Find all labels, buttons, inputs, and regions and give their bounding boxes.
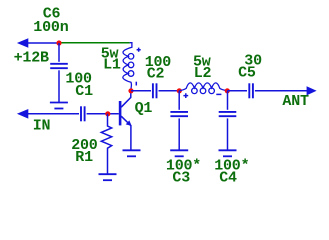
capacitor C1: [80, 106, 82, 121]
polarity - (L2): [216, 93, 221, 95]
svg-text:L1: L1: [103, 57, 121, 74]
inductor L2: [179, 83, 227, 91]
wire collector to C2: [131, 90, 151, 92]
port arrow +12B: [17, 38, 28, 48]
ground Q1: [123, 149, 141, 151]
wire +12B port to junction: [27, 42, 58, 44]
node C4 junction: [225, 88, 230, 93]
capacitor C5: [248, 83, 250, 98]
node C3 junction: [177, 88, 182, 93]
svg-text:C4: C4: [219, 170, 237, 187]
wire C4 junction to C5: [227, 90, 247, 92]
svg-text:100n: 100n: [33, 19, 68, 36]
capacitor C3: [178, 91, 180, 110]
inductor L1: [123, 43, 132, 89]
transistor Q1: [119, 101, 122, 125]
ground C6: [50, 102, 68, 104]
polarity + (L2): [183, 93, 188, 98]
polarity + (L1): [137, 48, 141, 52]
svg-text:Q1: Q1: [135, 100, 153, 117]
ground C3: [170, 149, 188, 151]
node collector junction: [128, 88, 133, 93]
svg-text:IN: IN: [33, 118, 51, 135]
node C6/rail junction: [56, 40, 61, 45]
capacitor C4: [227, 91, 229, 110]
wire C2 to L2: [159, 90, 180, 92]
svg-text:L2: L2: [194, 65, 212, 82]
svg-text:C1: C1: [75, 83, 93, 100]
svg-text:R1: R1: [75, 149, 93, 166]
ground C4: [219, 149, 237, 151]
capacitor C6: [58, 43, 60, 62]
wire +12B rail (green): [59, 42, 130, 44]
svg-text:C2: C2: [147, 66, 165, 83]
port arrow IN: [17, 109, 28, 119]
resistor R1: [101, 114, 111, 174]
capacitor C2: [152, 83, 154, 98]
ground R1: [99, 173, 117, 175]
wire IN port to C1: [27, 113, 79, 115]
svg-text:ANT: ANT: [282, 93, 309, 110]
polarity - (L1): [135, 82, 137, 86]
wire C1 to Q1 base: [87, 113, 119, 115]
wire C5 to ANT port: [255, 90, 308, 92]
node base junction: [105, 111, 110, 116]
svg-text:+12B: +12B: [14, 50, 49, 67]
svg-text:C5: C5: [238, 65, 256, 82]
svg-text:C3: C3: [172, 169, 190, 186]
port arrow ANT: [307, 86, 317, 95]
